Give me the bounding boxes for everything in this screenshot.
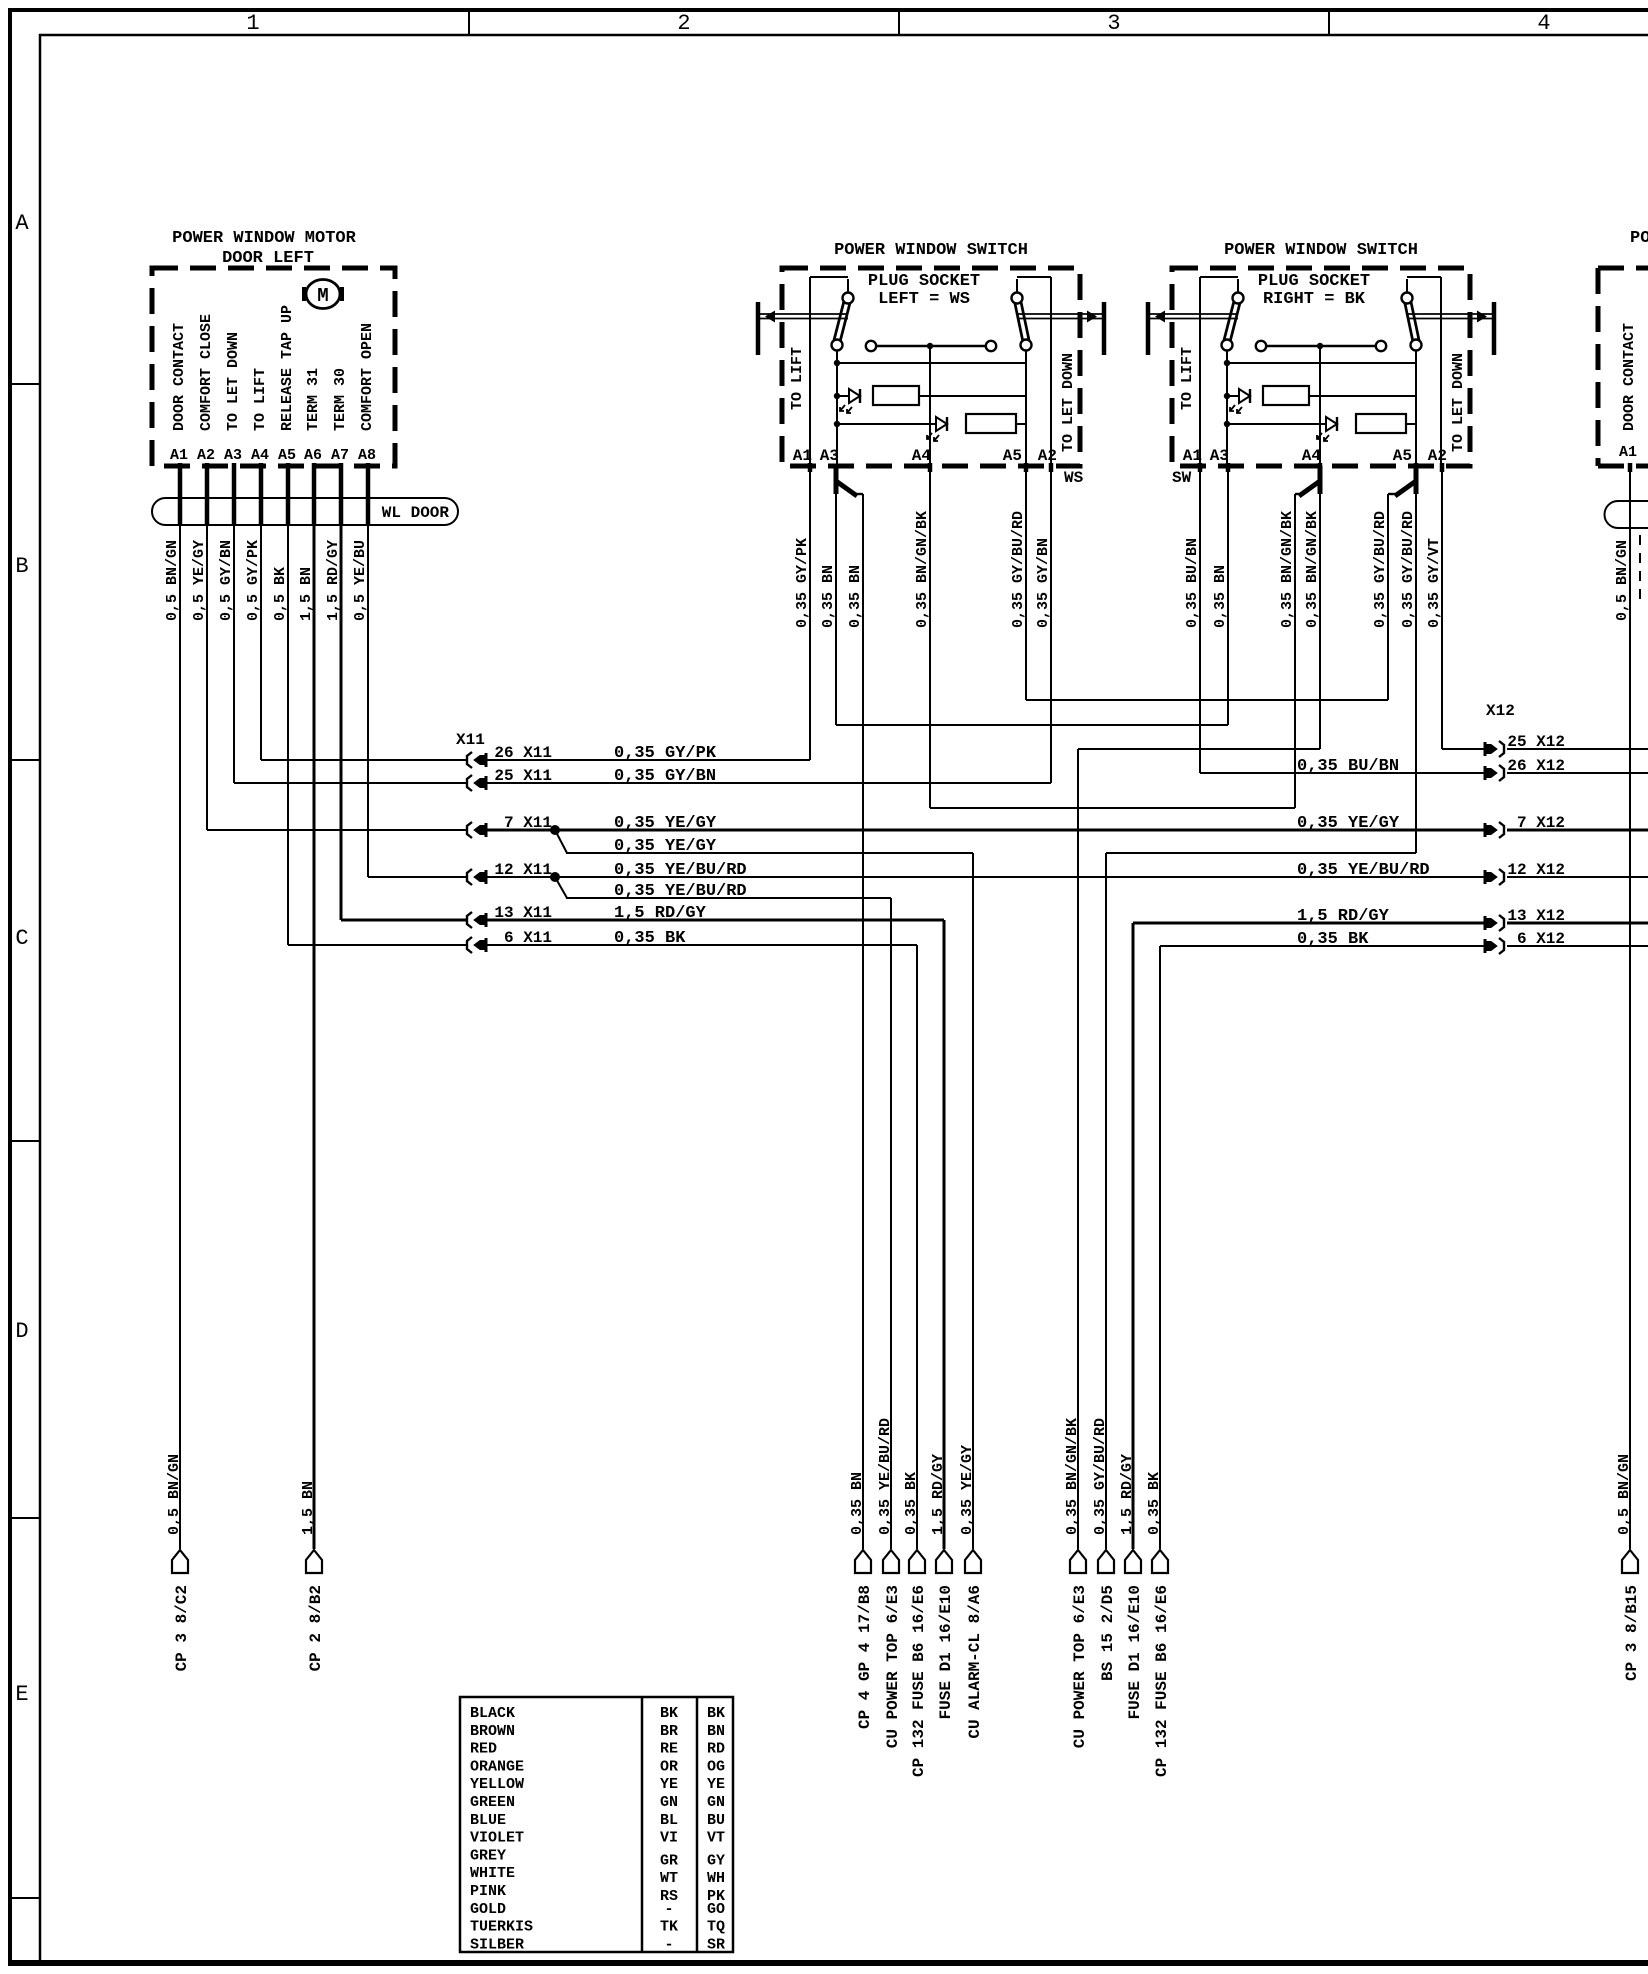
connector pin 25 X11 (467, 775, 472, 791)
rail 0,35 GY/BU/RD to BS 15 y853 (1106, 852, 1416, 854)
wire 1,5 RD/GY thick stub through grommet (339, 463, 344, 526)
wire 0,35 BK motor A5 to pin 6 X11 (288, 944, 467, 946)
svg-text:TK: TK (660, 1919, 678, 1936)
rail 0,35 BN between switches y725 (836, 724, 1228, 726)
svg-text:3: 3 (1107, 11, 1120, 36)
top ruler tick 1 (468, 8, 470, 35)
wire 0,5 GY/PK thick stub through grommet (259, 463, 264, 526)
svg-text:PINK: PINK (470, 1883, 506, 1900)
svg-text:2: 2 (677, 11, 690, 36)
branch 2 wire to A5 line (1406, 423, 1416, 425)
svg-text:0,35 YE/BU/RD: 0,35 YE/BU/RD (614, 882, 747, 901)
right motor wire exit nub (1628, 463, 1633, 472)
terminal CP 4 GP 4 17/B8 (855, 1550, 871, 1573)
wire 1,5 BN thick stub through grommet (312, 463, 317, 526)
wire 0,35 BN/GN/BK at x=930 (929, 466, 931, 808)
wire 1,5 RD/GY from motor 341 (340, 466, 343, 920)
svg-text:0,35 BN/GN/BK: 0,35 BN/GN/BK (1304, 511, 1321, 628)
terminal BS 15 2/D5 (1098, 1550, 1114, 1573)
svg-text:TO LET DOWN: TO LET DOWN (1060, 353, 1077, 452)
wire 0,35 YE/BU/RD down to CU POWER TOP (890, 898, 892, 1549)
resistor 1 (1263, 386, 1309, 405)
svg-text:SILBER: SILBER (470, 1936, 524, 1953)
top ruler tick 3 (1328, 8, 1330, 35)
svg-text:BLUE: BLUE (470, 1812, 506, 1829)
svg-text:X12: X12 (1486, 702, 1515, 720)
wire 0,5 GY/PK from motor 261 (260, 466, 262, 760)
svg-text:A4: A4 (912, 447, 932, 465)
svg-text:A1: A1 (793, 447, 812, 465)
wire exit nub at x=1228 (1226, 463, 1231, 472)
svg-text:M: M (317, 285, 328, 307)
switch internal top rail right (1407, 276, 1441, 278)
svg-text:GREY: GREY (470, 1847, 506, 1864)
wire 0,35 GY/VT to pin 25 X12 (1442, 748, 1484, 750)
wire 0,35 YE/BU/RD pin 12 X12 to right (1507, 876, 1648, 878)
wire 0,35 BU/BN to pin 26 X12 (1200, 772, 1484, 774)
svg-text:GN: GN (660, 1794, 678, 1811)
svg-text:A7: A7 (331, 447, 349, 464)
right motor dashed left edge (1596, 268, 1601, 466)
svg-text:-: - (664, 1901, 673, 1918)
connector pin 12 X11 (467, 869, 472, 885)
svg-text:CU POWER TOP 6/E3: CU POWER TOP 6/E3 (1071, 1585, 1089, 1748)
switch internal wire A1 (809, 277, 811, 466)
svg-text:4: 4 (1537, 11, 1550, 36)
wire 0,5 BN/GN from motor 180 (179, 466, 181, 1549)
wire 0,35 BK pin 6 X11 to drop (487, 944, 917, 946)
svg-text:WT: WT (660, 1870, 678, 1887)
actuation link left upper (1150, 313, 1238, 315)
legend: wire colour code table (460, 1697, 733, 1952)
wire 0,35 BU/BN at x=1200 (1199, 466, 1201, 773)
wire exit nub at x=1442 (1440, 463, 1445, 472)
contact bar with end contacts (866, 341, 876, 351)
actuation link right lower (1017, 318, 1102, 320)
svg-text:0,35 GY/PK: 0,35 GY/PK (794, 538, 811, 628)
component: POWER WINDOW SWITCH SW (dashed box) (1172, 268, 1470, 466)
svg-text:0,35 BU/BN: 0,35 BU/BN (1297, 757, 1399, 776)
wire exit nub at x=1051 (1049, 463, 1054, 472)
svg-text:POWER WINDOW MOTOR: POWER WINDOW MOTOR (1630, 229, 1648, 248)
svg-text:CP 4 GP 4 17/B8: CP 4 GP 4 17/B8 (856, 1585, 874, 1729)
svg-text:0,35 BU/BN: 0,35 BU/BN (1184, 538, 1201, 628)
svg-text:0,35 BK: 0,35 BK (1146, 1472, 1163, 1535)
wire 1,5 RD/GY pin 13 X11 to fuse drop (487, 919, 944, 922)
svg-text:0,35 GY/BU/RD: 0,35 GY/BU/RD (1400, 511, 1417, 628)
svg-text:DOOR LEFT: DOOR LEFT (222, 249, 314, 268)
svg-text:RED: RED (470, 1741, 497, 1758)
svg-text:VIOLET: VIOLET (470, 1830, 524, 1847)
wire 0,5 BN/GN right motor A1 (1629, 466, 1631, 1549)
svg-text:TERM 30: TERM 30 (332, 368, 349, 431)
svg-text:A4: A4 (1302, 447, 1322, 465)
actuation T-bar right (1492, 302, 1497, 355)
switch internal pivot stub right (1406, 279, 1408, 293)
wire pin 13 X12 to right motor (1507, 922, 1648, 925)
grommet WL DOOR (right, clipped) (1605, 501, 1634, 528)
split: BK switch pin A5 wire splits into two 0,35 GY/BU/RD (1414, 466, 1419, 494)
svg-text:0,35 GY/VT: 0,35 GY/VT (1426, 538, 1443, 628)
wire 0,5 BK from motor 288 (287, 466, 289, 945)
svg-text:COMFORT CLOSE: COMFORT CLOSE (198, 314, 215, 431)
svg-text:RIGHT = BK: RIGHT = BK (1263, 290, 1366, 309)
svg-text:0,5 GY/PK: 0,5 GY/PK (245, 540, 262, 621)
motor symbol M (306, 280, 340, 309)
svg-text:A8: A8 (358, 447, 376, 464)
switch internal wire A2 (1440, 277, 1442, 466)
svg-text:GR: GR (660, 1852, 678, 1869)
wire 0,35 YE/GY pin 7 X12 to right (1507, 829, 1648, 832)
svg-text:WS: WS (1064, 469, 1084, 487)
svg-text:WH: WH (707, 1870, 725, 1887)
connector pin 26 X11 (467, 752, 472, 768)
rocker lever right (1017, 298, 1026, 341)
actuation T-bar right (1102, 302, 1107, 355)
switch internal top rail left (810, 276, 848, 278)
svg-text:PLUG SOCKET: PLUG SOCKET (1258, 272, 1370, 291)
svg-text:CP 3 8/B15: CP 3 8/B15 (1623, 1585, 1641, 1681)
svg-text:LEFT = WS: LEFT = WS (878, 290, 970, 309)
svg-text:0,35 BK: 0,35 BK (614, 929, 686, 948)
switch internal wire A3 (836, 363, 838, 466)
svg-text:TO LET DOWN: TO LET DOWN (1450, 353, 1467, 452)
left ruler tick 2 (8, 759, 40, 761)
svg-text:CU ALARM-CL 8/A6: CU ALARM-CL 8/A6 (966, 1585, 984, 1739)
svg-text:DOOR CONTACT: DOOR CONTACT (171, 323, 188, 431)
svg-text:POWER WINDOW SWITCH: POWER WINDOW SWITCH (1224, 241, 1418, 260)
svg-text:A6: A6 (304, 447, 322, 464)
svg-text:0,35 YE/BU/RD: 0,35 YE/BU/RD (614, 861, 747, 880)
svg-text:1,5 RD/GY: 1,5 RD/GY (614, 904, 707, 923)
svg-text:TO LIFT: TO LIFT (252, 368, 269, 431)
wire 0,35 GY/BU/RD at x=1026 (1025, 466, 1027, 700)
wire 0,35 BK down to CP 132 FUSE B6 right (1159, 946, 1161, 1549)
svg-text:SW: SW (1172, 469, 1192, 487)
wire 0,5 YE/BU from motor 368 (367, 466, 369, 877)
connector pin 12 X12 (1499, 869, 1504, 885)
svg-text:0,5 BN/GN: 0,5 BN/GN (1616, 1454, 1633, 1535)
svg-text:VT: VT (707, 1830, 725, 1847)
left ruler tick 3 (8, 1140, 40, 1142)
wire pin 25 X12 to right motor (1507, 748, 1648, 750)
wire exit nub at x=1200 (1198, 463, 1203, 472)
wire 0,35 BN at x=1228 (1227, 466, 1229, 725)
svg-text:TO LET DOWN: TO LET DOWN (225, 332, 242, 431)
left ruler tick 4 (8, 1517, 40, 1519)
svg-text:0,35 BN: 0,35 BN (1212, 565, 1229, 628)
svg-text:0,5 BN/GN: 0,5 BN/GN (166, 1454, 183, 1535)
page-edge dashes (1639, 535, 1641, 600)
svg-text:FUSE D1 16/E10: FUSE D1 16/E10 (937, 1585, 955, 1719)
contact bar with end contacts (1256, 341, 1266, 351)
branch diagonal from 12 X11 junction (555, 877, 567, 898)
wire 1,5 BN from motor 314 (313, 466, 316, 1549)
svg-text:DOOR CONTACT: DOOR CONTACT (1621, 323, 1638, 431)
terminal CU POWER TOP 6/E3 (1070, 1550, 1086, 1573)
wire 0,35 BN/GN/BK at x=1320 (1319, 492, 1321, 749)
rocker lever left (837, 298, 848, 341)
actuation link left lower (760, 318, 848, 320)
switch internal wire A5 (1415, 363, 1417, 466)
wire 0,35 GY/BU/RD at x=1416 (1415, 492, 1417, 853)
svg-text:0,35 YE/BU/RD: 0,35 YE/BU/RD (877, 1418, 894, 1535)
svg-text:BR: BR (660, 1723, 678, 1740)
svg-text:A2: A2 (197, 447, 215, 464)
svg-text:FUSE D1 16/E10: FUSE D1 16/E10 (1126, 1585, 1144, 1719)
svg-text:0,35 BK: 0,35 BK (1297, 930, 1369, 949)
svg-text:OR: OR (660, 1758, 678, 1775)
svg-text:POWER WINDOW SWITCH: POWER WINDOW SWITCH (834, 241, 1028, 260)
svg-text:1,5 RD/GY: 1,5 RD/GY (1119, 1454, 1136, 1535)
svg-text:0,35 GY/BU/RD: 0,35 GY/BU/RD (1372, 511, 1389, 628)
wire 0,35 BK to pin 6 X12 (1160, 945, 1484, 947)
svg-text:A3: A3 (224, 447, 242, 464)
svg-text:YE: YE (707, 1776, 725, 1793)
wire exit nub at x=1026 (1024, 463, 1029, 472)
svg-text:GY: GY (707, 1852, 725, 1869)
svg-text:A5: A5 (278, 447, 296, 464)
svg-text:SR: SR (707, 1936, 725, 1953)
bottom frame bar (8, 1960, 1648, 1966)
svg-text:0,5 BK: 0,5 BK (272, 567, 289, 621)
rail 0,35 BN/GN/BK to CU POWER TOP y749 (1078, 748, 1320, 750)
terminal CP 2 8/B2 (306, 1550, 322, 1573)
split: WS pin A3 wire splits into two 0,35 BN (834, 466, 839, 494)
switch internal pivot stub left (847, 279, 849, 293)
rocker lever left (1227, 298, 1238, 341)
right motor dashed top edge (1598, 266, 1648, 271)
svg-text:GN: GN (707, 1794, 725, 1811)
LED 1 (1227, 395, 1239, 397)
svg-text:A2: A2 (1428, 447, 1447, 465)
svg-text:0,35 BN/GN/BK: 0,35 BN/GN/BK (1064, 1418, 1081, 1535)
connector pin 6 X11 (467, 937, 472, 953)
rocker lever right (1407, 298, 1416, 341)
top ruler tick 2 (898, 8, 900, 35)
svg-text:A1: A1 (1619, 444, 1637, 461)
left ruler tick 5 (8, 1897, 40, 1899)
switch internal wire A3 (1226, 363, 1228, 466)
wire exit nub at x=1416 (1414, 463, 1419, 472)
svg-text:CP 2 8/B2: CP 2 8/B2 (307, 1585, 325, 1671)
svg-text:0,5 YE/BU: 0,5 YE/BU (352, 540, 369, 621)
svg-text:WL DOOR: WL DOOR (382, 504, 450, 522)
svg-text:CP 3 8/C2: CP 3 8/C2 (173, 1585, 191, 1671)
svg-text:POWER WINDOW MOTOR: POWER WINDOW MOTOR (172, 229, 356, 248)
wire 0,35 GY/PK motor A4 to pin 26 X11 (261, 759, 467, 761)
svg-text:GREEN: GREEN (470, 1794, 515, 1811)
connector pin 13 X11 (467, 912, 472, 928)
svg-text:0,5 GY/BN: 0,5 GY/BN (218, 540, 235, 621)
inner frame top (ruler bottom) (39, 34, 1648, 37)
switch internal wire A2 (1050, 277, 1052, 466)
svg-text:BS 15 2/D5: BS 15 2/D5 (1099, 1585, 1117, 1681)
svg-text:A5: A5 (1003, 447, 1022, 465)
svg-text:0,5 YE/GY: 0,5 YE/GY (191, 540, 208, 621)
wire 0,35 GY/VT at x=1442 (1441, 466, 1443, 749)
connector pin 26 X12 (1499, 765, 1504, 781)
svg-text:0,35 GY/BN: 0,35 GY/BN (614, 767, 716, 786)
terminal CP 132 FUSE B6 16/E6 (909, 1550, 925, 1573)
svg-text:BLACK: BLACK (470, 1705, 515, 1722)
lever left to bridge (1226, 351, 1228, 363)
svg-text:OG: OG (707, 1758, 725, 1775)
svg-text:0,35 YE/GY: 0,35 YE/GY (1297, 814, 1400, 833)
switch internal bridge wire (1227, 362, 1416, 364)
junction dot on 12 X11 wire (550, 872, 560, 882)
actuation link right lower (1407, 318, 1492, 320)
svg-text:COMFORT OPEN: COMFORT OPEN (359, 323, 376, 431)
svg-text:0,35 BN: 0,35 BN (849, 1472, 866, 1535)
terminal CU ALARM-CL 8/A6 (965, 1550, 981, 1573)
svg-text:1,5 RD/GY: 1,5 RD/GY (325, 540, 342, 621)
actuation T-bar left (1146, 302, 1151, 355)
grommet WL DOOR (stadium outline) (152, 498, 458, 525)
connector pin 25 X12 (1499, 741, 1504, 757)
svg-text:0,35 GY/BU/RD: 0,35 GY/BU/RD (1010, 511, 1027, 628)
terminal FUSE D1 16/E10 (936, 1550, 952, 1573)
actuation link left lower (1150, 318, 1238, 320)
terminal CP 132 FUSE B6 16/E6 (1152, 1550, 1168, 1573)
svg-text:1,5 RD/GY: 1,5 RD/GY (930, 1454, 947, 1535)
svg-text:TERM 31: TERM 31 (305, 368, 322, 431)
svg-text:0,35 BN/GN/BK: 0,35 BN/GN/BK (1279, 511, 1296, 628)
LED 2 (837, 423, 936, 425)
svg-text:A4: A4 (251, 447, 269, 464)
svg-text:C: C (15, 926, 28, 951)
connector pin 13 X12 (1499, 915, 1504, 931)
split: BK switch pin A4 wire splits into two 0,35 BN/GN/BK (1318, 466, 1323, 494)
svg-text:BK: BK (660, 1705, 678, 1722)
branch diagonal from 7 X11 junction (555, 830, 567, 853)
svg-text:1: 1 (246, 11, 259, 36)
outer page border left (8, 8, 12, 1966)
lever right to bridge (1415, 351, 1417, 363)
wire 0,35 YE/BU/RD branch to CU POWER TOP (566, 897, 891, 899)
svg-text:0,5 BN/GN: 0,5 BN/GN (164, 540, 181, 621)
svg-text:ORANGE: ORANGE (470, 1758, 524, 1775)
svg-text:CP 132 FUSE B6 16/E6: CP 132 FUSE B6 16/E6 (1153, 1585, 1171, 1777)
wire exit nub at x=930 (928, 463, 933, 472)
svg-text:A1: A1 (1183, 447, 1202, 465)
resistor 1 (873, 386, 919, 405)
svg-text:RE: RE (660, 1741, 678, 1758)
svg-text:0,35 YE/GY: 0,35 YE/GY (959, 1445, 976, 1535)
wire 0,35 YE/BU/RD pin 12 X11 through to pin 12 X12 (487, 876, 1484, 878)
svg-text:1,5 BN: 1,5 BN (300, 1481, 317, 1535)
wire 0,5 GY/BN thick stub through grommet (232, 463, 237, 526)
svg-text:X11: X11 (456, 731, 485, 749)
svg-text:E: E (15, 1682, 28, 1707)
wire 0,35 BN at x=863 (862, 494, 864, 1549)
svg-text:0,35 GY/BN: 0,35 GY/BN (1035, 538, 1052, 628)
component: POWER WINDOW SWITCH WS (dashed box) (782, 268, 1080, 466)
component: POWER WINDOW MOTOR DOOR LEFT (dashed box) (152, 268, 395, 466)
wire 1,5 RD/GY motor A7 to pin 13 X11 (341, 919, 467, 922)
right motor dashed bottom edge (1598, 464, 1648, 469)
svg-text:B: B (15, 554, 28, 579)
resistor 2 (1356, 414, 1406, 433)
svg-text:GOLD: GOLD (470, 1901, 506, 1918)
svg-text:1,5 BN: 1,5 BN (298, 567, 315, 621)
wire exit nub at x=810 (808, 463, 813, 472)
wire 1,5 RD/GY down to FUSE D1 (943, 920, 946, 1549)
svg-text:0,35 BN: 0,35 BN (820, 565, 837, 628)
wire 0,5 YE/BU thick stub through grommet (366, 463, 371, 526)
wire 0,35 GY/BN pin 25 X11 to switch (487, 782, 1051, 784)
resistor 2 (966, 414, 1016, 433)
svg-text:CP 132 FUSE B6 16/E6: CP 132 FUSE B6 16/E6 (910, 1585, 928, 1777)
svg-text:BL: BL (660, 1812, 678, 1829)
wire 0,35 GY/BN motor A3 to pin 25 X11 (234, 782, 467, 784)
wire 0,35 GY/BU/RD down to BS 15 (1105, 853, 1107, 1549)
switch internal top rail left (1200, 276, 1238, 278)
svg-text:0,35 BN/GN/BK: 0,35 BN/GN/BK (914, 511, 931, 628)
wire exit nub at x=1320 (1318, 463, 1323, 472)
terminal CP 3 8/B15 (1622, 1550, 1638, 1573)
wire 0,35 BN/GN/BK down to CU POWER TOP (1077, 749, 1079, 1549)
svg-text:A5: A5 (1393, 447, 1412, 465)
junction dot on 7 X11 wire (550, 825, 560, 835)
terminal FUSE D1 16/E10 (1125, 1550, 1141, 1573)
wire 0,35 YE/GY motor A2 to pin 7 X11 (207, 829, 467, 831)
svg-text:0,35 BK: 0,35 BK (903, 1472, 920, 1535)
svg-text:YELLOW: YELLOW (470, 1776, 524, 1793)
wire 0,5 YE/GY thick stub through grommet (205, 463, 210, 526)
svg-text:-: - (664, 1936, 673, 1953)
rail 0,35 BN/GN/BK between switches y808 (930, 807, 1295, 809)
wire pin 26 X12 to right motor (1507, 772, 1648, 774)
switch internal wire A4 from contact bar (1319, 346, 1321, 466)
actuation link right upper (1407, 313, 1492, 315)
svg-text:TO LIFT: TO LIFT (789, 347, 806, 410)
svg-text:0,35 BN: 0,35 BN (847, 565, 864, 628)
svg-text:0,35 YE/GY: 0,35 YE/GY (614, 837, 717, 856)
switch internal top rail right (1017, 276, 1051, 278)
wire 0,5 GY/BN from motor 234 (233, 466, 235, 783)
branch 2 wire to A5 line (1016, 423, 1026, 425)
inner frame left (ruler right) (39, 34, 42, 1963)
LED 1 (837, 395, 849, 397)
wire 0,35 BN/GN/BK at x=1295 (1294, 494, 1296, 808)
svg-text:TQ: TQ (707, 1919, 725, 1936)
svg-text:0,5 BN/GN: 0,5 BN/GN (1614, 540, 1631, 621)
svg-text:BN: BN (707, 1723, 725, 1740)
left ruler tick 1 (8, 383, 40, 385)
svg-text:A: A (15, 211, 29, 236)
outer page border top (8, 8, 1648, 12)
wire 0,35 GY/PK at x=810 (809, 466, 811, 760)
wire 0,5 BK thick stub through grommet (286, 463, 291, 526)
branch 1 wire to A5 line (919, 395, 1026, 397)
wire 0,35 GY/BN at x=1051 (1050, 466, 1052, 783)
svg-text:0,35 YE/GY: 0,35 YE/GY (614, 814, 717, 833)
lever left to bridge (836, 351, 838, 363)
rail 0,35 GY/BU/RD between switches y700 (1026, 699, 1388, 701)
switch internal pivot stub right (1016, 279, 1018, 293)
svg-text:A1: A1 (170, 447, 188, 464)
wire 0,35 GY/PK pin 26 X11 to switch (487, 759, 810, 761)
terminal CU POWER TOP 6/E3 (883, 1550, 899, 1573)
branch 1 wire to A5 line (1309, 395, 1416, 397)
wire 0,35 BN at x=836 (835, 492, 837, 725)
svg-text:RD: RD (707, 1741, 725, 1758)
svg-text:A2: A2 (1038, 447, 1057, 465)
svg-text:A3: A3 (820, 447, 839, 465)
wire 1,5 RD/GY to pin 13 X12 (1133, 922, 1484, 925)
svg-text:BU: BU (707, 1812, 725, 1829)
